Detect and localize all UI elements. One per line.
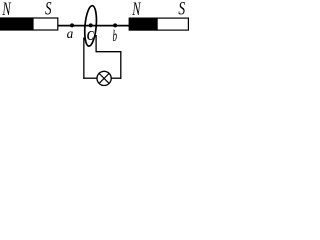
lamp L (circle)	[97, 71, 111, 85]
magnet M1 N-pole (black half)	[0, 17, 33, 30]
svg-text:N: N	[2, 0, 12, 20]
wire right leg of coil	[95, 35, 97, 52]
background	[0, 0, 196, 90]
svg-text:a: a	[67, 26, 74, 41]
magnet M2 S-pole (white half outlined)	[157, 18, 188, 30]
wire left leg of coil	[83, 38, 85, 79]
wire bottom rail right	[111, 77, 122, 79]
lamp L cross stroke 1	[99, 73, 109, 83]
node on wire inside coil	[89, 23, 93, 27]
coil C (ellipse)	[83, 5, 98, 46]
svg-text:S: S	[178, 0, 185, 19]
node b	[113, 23, 117, 27]
svg-text:C: C	[87, 27, 94, 43]
svg-text:S: S	[45, 0, 51, 19]
magnet M2 N-pole (black half)	[129, 18, 158, 31]
magnet M1 S-pole (white half outlined)	[33, 18, 58, 30]
wire right vertical	[120, 51, 122, 79]
wire bottom rail left	[83, 77, 97, 79]
node a	[70, 23, 74, 27]
wire middle rail	[96, 51, 122, 53]
svg-text:N: N	[131, 0, 141, 20]
wire conductor a-b	[58, 25, 129, 27]
lamp L cross stroke 2	[99, 73, 109, 83]
svg-text:b: b	[113, 27, 118, 44]
